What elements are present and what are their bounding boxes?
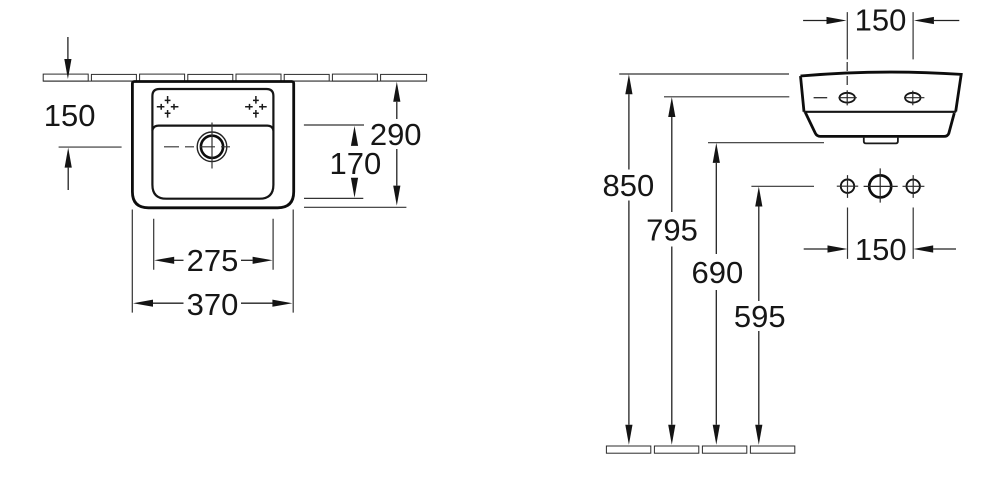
basin lower bowl outline [805,112,954,136]
dim 290: dimension line with arrows [393,82,400,102]
tap centerline dash left of ellipses [814,97,828,99]
tap ellipse crosshair ticks [838,97,924,99]
basin inner deck outline [152,89,273,199]
dim 275: dimension line with outward arrows [154,257,174,264]
mounting hole center [869,175,891,197]
dim 150 bottom: extension lines down from holes [848,208,914,259]
wall hatch band [43,74,426,81]
dim 150 left: up arrow below line [65,148,72,168]
svg-text:370: 370 [187,287,239,322]
svg-text:150: 150 [44,98,96,133]
svg-text:595: 595 [734,299,786,334]
dim 170: extension line top [304,124,364,126]
reference line 690 (bottom of basin) [708,142,824,144]
tap hole mark right [245,96,267,118]
dim 150 top: right arrow [914,17,934,24]
dim 290: extension line bottom [304,206,406,208]
mounting hole left [841,180,854,193]
dim 150 left: reference line at drain centerline [59,146,122,148]
dim 795 vertical line [668,97,675,117]
deck divider line [152,126,273,131]
dim 170: dimension line with arrows [351,126,358,146]
basin rim bottom line [804,111,957,113]
dim 150 bottom: right arrow [913,245,933,252]
basin front outline: top edge and sides [801,72,962,112]
dim 150 left: down arrow at wall [67,37,69,60]
dim 275: extension lines [154,219,273,270]
overflow tab under bowl [864,138,898,144]
floor hatch band [606,446,794,453]
dim 370: dimension line with outward arrows [133,300,153,307]
mounting hole right [907,180,920,193]
dim 170: extension line bottom [304,197,363,199]
drain horizontal centerline [164,146,236,148]
tap hole ellipse left [840,93,855,103]
svg-text:150: 150 [855,232,907,267]
dim 370: extension lines [132,210,293,313]
dim 150 top: extension lines [847,12,913,59]
svg-text:795: 795 [646,212,698,247]
drain vertical centerline [211,123,213,169]
svg-text:150: 150 [855,3,907,38]
reference line 595 (mounting holes centre) [751,185,814,187]
drain outer circle [197,132,227,162]
svg-text:690: 690 [692,255,744,290]
drain inner circle [201,136,223,158]
basin outer outline [132,82,293,208]
dim 595 vertical line [755,187,762,207]
dim 150 top: left arrow [803,20,827,22]
reference line 795 (tap hole centre) [664,96,789,98]
svg-text:275: 275 [187,243,239,278]
svg-text:170: 170 [330,146,382,181]
dashed centerline up from left tap hole [846,62,848,87]
svg-text:850: 850 [603,168,655,203]
wall surface line [43,80,426,82]
dim 690 vertical line [713,143,720,163]
reference line 850 (top of basin) [619,73,789,75]
tap hole ellipse right [905,93,920,103]
tap hole mark left [157,96,179,118]
dim 150 bottom: left arrow [804,248,828,250]
dim 850 vertical line [625,74,632,94]
